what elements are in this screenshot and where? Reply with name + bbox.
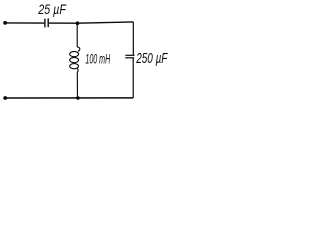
wire right vertical upper <box>132 22 134 55</box>
wire top right segment <box>49 22 134 23</box>
terminal dot bottom-left <box>3 96 7 100</box>
node junction dot bottom <box>76 96 80 100</box>
capacitor C1 plate right <box>47 18 49 27</box>
inductor L1 branch <box>70 23 80 98</box>
capacitor C2 plate bottom <box>125 57 134 59</box>
capacitor C1 plate left <box>44 19 46 28</box>
terminal dot top-left <box>3 21 7 25</box>
node junction dot top <box>76 21 80 25</box>
svg-text:100 mH: 100 mH <box>85 50 110 66</box>
svg-text:25 µF: 25 µF <box>37 2 67 18</box>
capacitor C2 plate top <box>125 54 134 56</box>
wire bottom <box>7 97 134 99</box>
svg-text:250 µF: 250 µF <box>136 51 169 67</box>
wire right vertical lower <box>132 58 134 98</box>
wire top left segment <box>7 22 45 24</box>
